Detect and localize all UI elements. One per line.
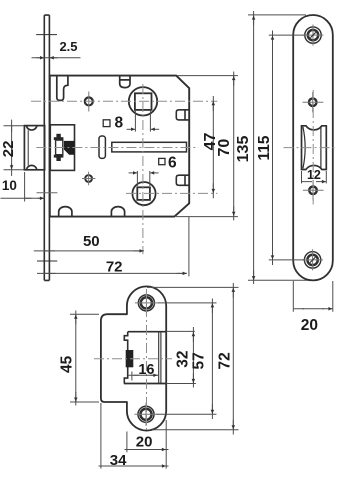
svg-text:2.5: 2.5: [59, 39, 77, 54]
centerline horizontal top spindle: [31, 100, 217, 102]
follower slot plate: [99, 136, 105, 158]
dimension 72 (strike height): [147, 283, 239, 435]
dimension 16: [128, 372, 159, 381]
faceplate outline (stadium): [293, 15, 333, 280]
svg-text:70: 70: [216, 139, 233, 157]
dimension 20 (faceplate width): [293, 281, 333, 312]
svg-text:10: 10: [2, 178, 17, 193]
small hole top: [303, 92, 324, 112]
top dome tab cutout: [120, 76, 130, 88]
latch catch tab (black): [126, 351, 133, 367]
centerline vertical (spindles): [142, 84, 144, 254]
square symbol for 8: [103, 120, 110, 127]
svg-text:16: 16: [138, 362, 154, 378]
lock body outline: [50, 76, 189, 217]
strike plate outline (stadium, left edge interrupted by flange): [127, 286, 166, 430]
centerline horizontal bottom spindle: [37, 192, 58, 194]
dimension 34 (flange width): [99, 403, 169, 469]
dimension 115: [269, 31, 305, 266]
faceplate (edge view strip): [44, 15, 49, 280]
svg-text:32: 32: [175, 350, 192, 367]
strike cutout top edge: [128, 331, 167, 333]
top spindle circle: [129, 87, 157, 115]
slide bar: [112, 142, 187, 152]
bottom dome tab B: [111, 207, 124, 217]
svg-text:57: 57: [191, 352, 208, 369]
strike top screw: [135, 291, 158, 314]
svg-text:34: 34: [110, 452, 127, 469]
latch bevel curve: [303, 127, 305, 169]
dimension 8: [127, 111, 160, 132]
screw hole tick (bottom) on faceplate: [37, 260, 57, 262]
strike cutout bottom edge: [124, 383, 166, 385]
centerline horizontal (latch/bar axis): [36, 147, 198, 149]
dimension 32: [192, 327, 194, 388]
right edge bump 2: [176, 175, 189, 185]
centerline horizontal latch: [284, 147, 338, 149]
dimension 47: [212, 96, 214, 198]
strike bottom screw: [135, 403, 158, 426]
dimension 57: [157, 299, 217, 420]
centerline vertical faceplate: [312, 90, 314, 205]
dimension 10: [1, 172, 45, 202]
dimension 135: [248, 11, 312, 284]
dimension 70: [176, 72, 238, 221]
svg-text:50: 50: [83, 233, 100, 250]
top hook tab cutout: [57, 76, 68, 100]
latch head (left of faceplate): [24, 126, 44, 170]
svg-text:45: 45: [59, 355, 76, 373]
latch inner edge line: [320, 126, 322, 169]
dimension 6: [129, 171, 159, 186]
right edge bump 1: [176, 110, 189, 120]
svg-text:20: 20: [136, 433, 153, 450]
follower spool: [54, 134, 64, 161]
label 8: [114, 114, 123, 131]
strike flange (wing): [101, 314, 128, 402]
strike centerline vertical: [146, 289, 148, 433]
top spindle square 8mm: [135, 93, 152, 110]
spring block (black): [64, 141, 74, 154]
strike cutout inner fold lines: [159, 332, 161, 384]
strike cutout left edge with steps: [124, 332, 127, 384]
bottom screw: [302, 249, 323, 270]
dimension 20 (strike plate width): [125, 420, 169, 469]
svg-text:72: 72: [216, 352, 233, 369]
dimension 72 (body depth): [37, 216, 189, 276]
latch opening: [302, 126, 327, 170]
label 6: [168, 154, 177, 171]
svg-text:115: 115: [256, 135, 273, 160]
top screw: [303, 25, 324, 46]
svg-text:135: 135: [235, 136, 252, 163]
square symbol for 6: [159, 158, 165, 164]
svg-text:22: 22: [0, 141, 17, 158]
dimension 22: [4, 120, 25, 176]
small hole (bottom, bold ring): [82, 172, 95, 185]
bottom spindle square 6mm: [137, 187, 150, 200]
small hole bottom: [303, 180, 324, 200]
bottom spindle circle: [132, 182, 155, 205]
small hole (top, bold ring): [85, 92, 93, 112]
dimension 50: [34, 250, 144, 252]
dimension 2.5: [32, 57, 81, 59]
svg-text:12: 12: [307, 168, 321, 182]
screw hole tick (top) on faceplate: [36, 34, 57, 36]
svg-text:6: 6: [168, 154, 177, 171]
dimension 12: [302, 171, 327, 183]
latch housing (right of faceplate): [50, 125, 74, 171]
dimension 45: [70, 311, 99, 406]
strike centerline horizontal: [94, 358, 172, 360]
svg-text:20: 20: [301, 317, 318, 334]
bottom dome tab A: [59, 207, 72, 217]
svg-text:72: 72: [106, 259, 123, 276]
svg-text:8: 8: [114, 114, 123, 131]
